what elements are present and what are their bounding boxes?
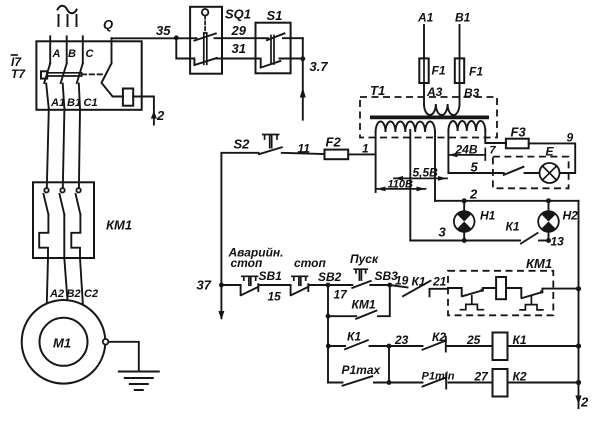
T1 secondary winding left — [376, 122, 435, 132]
KM1 left contact — [448, 288, 462, 296]
svg-text:B2: B2 — [67, 288, 81, 300]
node 19 junction — [387, 283, 392, 288]
svg-text:F3: F3 — [511, 125, 527, 140]
KM1 main contact B — [60, 194, 65, 214]
svg-text:К1: К1 — [513, 333, 527, 347]
motor M1 — [22, 300, 106, 384]
svg-text:2: 2 — [156, 108, 165, 123]
svg-text:E: E — [546, 145, 555, 159]
SQ1 upper contact — [190, 37, 196, 39]
dimension 24V — [448, 154, 485, 156]
contact P1max — [343, 376, 373, 386]
contact K2 NC — [389, 345, 423, 347]
svg-text:P1min: P1min — [422, 371, 455, 383]
dimension extension — [484, 149, 486, 161]
switch S1 box — [256, 23, 291, 74]
wire net 2 horizontal — [435, 200, 579, 202]
wire B1 drop — [63, 109, 65, 188]
svg-text:21: 21 — [432, 275, 447, 289]
button SB1 — [240, 285, 242, 295]
fuse F2 — [325, 150, 349, 160]
svg-text:К1: К1 — [506, 220, 520, 234]
svg-text:B1: B1 — [67, 97, 81, 109]
breaker pole C contact — [77, 63, 83, 83]
node 23 junction — [387, 344, 392, 349]
trip bar — [47, 73, 81, 76]
wire 15 — [259, 284, 290, 286]
wire A3 lead — [423, 83, 425, 104]
junction H1 top — [462, 198, 467, 203]
svg-text:P1max: P1max — [342, 363, 382, 377]
wire to ground — [108, 342, 138, 371]
motor ground terminal — [103, 339, 109, 345]
svg-text:К1: К1 — [347, 330, 361, 344]
svg-text:A3: A3 — [426, 85, 443, 99]
svg-text:27: 27 — [474, 370, 490, 384]
limit switch SQ1 box — [190, 7, 222, 74]
svg-text:110В: 110В — [388, 179, 414, 191]
wire secondary right end (net 2) — [434, 132, 436, 201]
svg-text:9: 9 — [567, 131, 574, 145]
svg-text:35: 35 — [156, 23, 171, 38]
wire 29 — [222, 37, 256, 39]
fuse F3 — [506, 139, 529, 149]
junction H2 bottom — [546, 238, 551, 243]
SQ1 roller — [202, 9, 209, 16]
wire coil to net 2 — [133, 97, 154, 125]
contactor KM1 dashed box — [448, 271, 553, 316]
SQ1 lower contact — [194, 58, 216, 65]
arrow up net 3.7 — [300, 88, 306, 98]
trip bar dashed link — [82, 73, 102, 75]
junction H2 top — [546, 198, 551, 203]
contact K1 (start) — [390, 285, 408, 287]
arrow to net 2 — [151, 111, 157, 119]
svg-text:Н2: Н2 — [563, 209, 579, 223]
svg-text:C2: C2 — [84, 288, 98, 300]
svg-text:S2: S2 — [234, 137, 251, 152]
local light box E dashed — [493, 157, 569, 189]
riser 23 — [388, 346, 390, 383]
svg-text:КМ1: КМ1 — [526, 256, 552, 271]
wire 9 — [529, 143, 576, 173]
S1 actuator — [271, 36, 274, 65]
fuse F1 (A) — [419, 58, 428, 83]
wire phase A into Q — [49, 36, 51, 63]
wire A2 — [47, 258, 48, 303]
wire C2 — [80, 258, 83, 305]
svg-text:7: 7 — [490, 145, 497, 157]
node 3.7 junction — [300, 56, 305, 61]
wire B2 — [64, 258, 67, 300]
svg-text:B1: B1 — [455, 11, 471, 25]
switch in E — [504, 167, 524, 175]
breaker pole B contact — [61, 63, 67, 83]
KM1 main contact A — [44, 194, 49, 214]
svg-text:Н1: Н1 — [480, 209, 496, 223]
wire 5 lead — [447, 131, 449, 173]
wire to node 3.7 — [302, 38, 304, 59]
wire 35 — [112, 37, 191, 39]
wire coil K2 to bus — [508, 382, 579, 384]
wire 11 — [282, 153, 325, 154]
svg-text:F1: F1 — [432, 64, 446, 78]
circuit breaker Q box — [36, 41, 141, 110]
wire tap (net 3) — [409, 130, 411, 241]
KM1 holding branch — [327, 285, 329, 316]
lamp E — [540, 163, 560, 183]
svg-text:3: 3 — [439, 225, 447, 240]
wire 17 — [309, 284, 352, 286]
S2 contact — [259, 147, 282, 154]
svg-text:25: 25 — [466, 333, 481, 347]
svg-text:SB2: SB2 — [318, 270, 342, 284]
svg-text:11: 11 — [298, 142, 311, 156]
svg-text:A: A — [52, 48, 61, 60]
thermal trip element — [41, 71, 47, 78]
dimension 110V — [377, 188, 426, 190]
svg-text:1: 1 — [362, 142, 369, 156]
svg-text:17: 17 — [334, 288, 349, 302]
wire C1 drop — [79, 109, 80, 188]
svg-text:К2: К2 — [432, 330, 446, 344]
T1 primary winding — [424, 104, 459, 115]
svg-text:5,5В: 5,5В — [413, 166, 439, 180]
junction KM1 to bus — [576, 286, 581, 291]
wire 7 lead — [485, 131, 506, 143]
S1 lower contact — [256, 59, 261, 68]
right bus net 2 — [578, 201, 580, 408]
wire coil K1 to bus — [508, 345, 579, 347]
S2 actuator — [263, 135, 279, 148]
fuse F1 (B) — [455, 58, 464, 83]
svg-text:стоп: стоп — [294, 256, 327, 270]
wire 5 — [448, 172, 503, 174]
svg-text:3.7: 3.7 — [310, 59, 329, 74]
T1 core — [370, 116, 489, 120]
KM1 coil — [496, 277, 506, 299]
svg-text:S1: S1 — [267, 8, 283, 23]
svg-text:T1: T1 — [370, 83, 385, 98]
breaker release coil — [123, 89, 133, 106]
AC supply symbol — [58, 6, 77, 14]
T1 secondary winding right — [448, 121, 485, 131]
node 35 junction — [174, 35, 179, 40]
wire stub net 3.7 — [302, 59, 304, 120]
svg-text:T7: T7 — [11, 67, 26, 81]
S1 upper contact — [256, 37, 269, 39]
wire phase B into Q — [66, 36, 68, 63]
arrow bus down — [575, 396, 581, 405]
relay coil K2 — [493, 369, 508, 397]
svg-text:КМ1: КМ1 — [106, 218, 132, 233]
svg-text:C1: C1 — [84, 97, 98, 109]
junction K1 row — [326, 344, 331, 349]
svg-text:5: 5 — [471, 160, 479, 175]
breaker pole A contact — [44, 63, 50, 83]
svg-text:КМ1: КМ1 — [352, 298, 376, 312]
svg-text:A1: A1 — [417, 11, 434, 25]
P1max row — [328, 382, 343, 384]
contact KM1 aux — [356, 311, 376, 319]
breaker pole 4 (release) — [111, 38, 113, 63]
wire secondary left end — [375, 132, 377, 192]
svg-text:A1: A1 — [50, 97, 65, 109]
left column wire — [327, 316, 329, 382]
svg-text:2: 2 — [580, 395, 589, 410]
KM1 terminal B — [60, 188, 64, 192]
svg-text:F2: F2 — [326, 135, 342, 150]
SQ1 lower branch wire — [176, 38, 194, 64]
wire 19 — [370, 284, 390, 286]
contact P1min NC — [389, 382, 423, 384]
lamp H1 — [463, 201, 465, 211]
svg-text:SB1: SB1 — [259, 269, 283, 283]
wire phase C into Q — [82, 36, 84, 63]
dimension 5,5V — [394, 177, 447, 179]
wire B1 lead — [459, 25, 461, 58]
svg-text:13: 13 — [551, 235, 565, 249]
svg-text:стоп: стоп — [231, 256, 264, 270]
wire from S2 down to node 37 — [221, 153, 258, 318]
wire 3 — [410, 240, 520, 242]
contact K1 (lamps) — [521, 233, 538, 244]
button SB2 — [290, 285, 292, 295]
svg-text:Q: Q — [103, 17, 113, 32]
svg-text:A2: A2 — [49, 288, 64, 300]
svg-text:B: B — [68, 48, 76, 60]
wire 31 — [222, 58, 256, 60]
svg-text:C: C — [86, 48, 95, 60]
wire B3 lead — [459, 83, 461, 104]
svg-text:29: 29 — [231, 23, 247, 38]
svg-text:23: 23 — [394, 333, 409, 347]
SQ1 actuator — [204, 33, 207, 64]
svg-text:К2: К2 — [513, 370, 527, 384]
svg-text:F1: F1 — [469, 65, 483, 79]
svg-text:15: 15 — [268, 290, 282, 304]
contactor KM1 main box — [33, 182, 94, 258]
svg-text:2: 2 — [469, 187, 478, 202]
svg-text:B3: B3 — [464, 86, 480, 100]
control row wire — [221, 284, 240, 286]
KM1 terminal C — [76, 188, 80, 192]
arrow down node 37 — [218, 311, 224, 320]
KM1 right contact — [506, 288, 521, 298]
wire 1 — [348, 153, 375, 155]
KM1 main contact C — [76, 194, 81, 214]
svg-text:Пуск: Пуск — [350, 252, 379, 266]
KM1 right contact linkage — [530, 296, 532, 304]
K1 row: contact K1 — [328, 345, 345, 347]
wire A1 lead — [423, 25, 425, 58]
svg-text:31: 31 — [232, 41, 246, 56]
svg-text:К1: К1 — [412, 275, 426, 289]
svg-text:24В: 24В — [455, 143, 478, 157]
KM1 terminal A — [44, 188, 48, 192]
node 37 junction — [219, 283, 224, 288]
svg-text:М1: М1 — [53, 336, 71, 351]
ground — [119, 372, 159, 391]
button SB3 — [352, 281, 370, 288]
svg-text:37: 37 — [197, 278, 212, 293]
wire A1 drop — [47, 109, 49, 188]
node 17 junction — [326, 283, 331, 288]
KM1 left contact linkage — [471, 296, 473, 304]
lamp H2 — [548, 201, 550, 211]
transformer T1 dashed box — [360, 97, 497, 138]
svg-text:SQ1: SQ1 — [225, 7, 251, 22]
relay coil K1 — [493, 333, 508, 361]
junction H1 bottom — [462, 238, 467, 243]
